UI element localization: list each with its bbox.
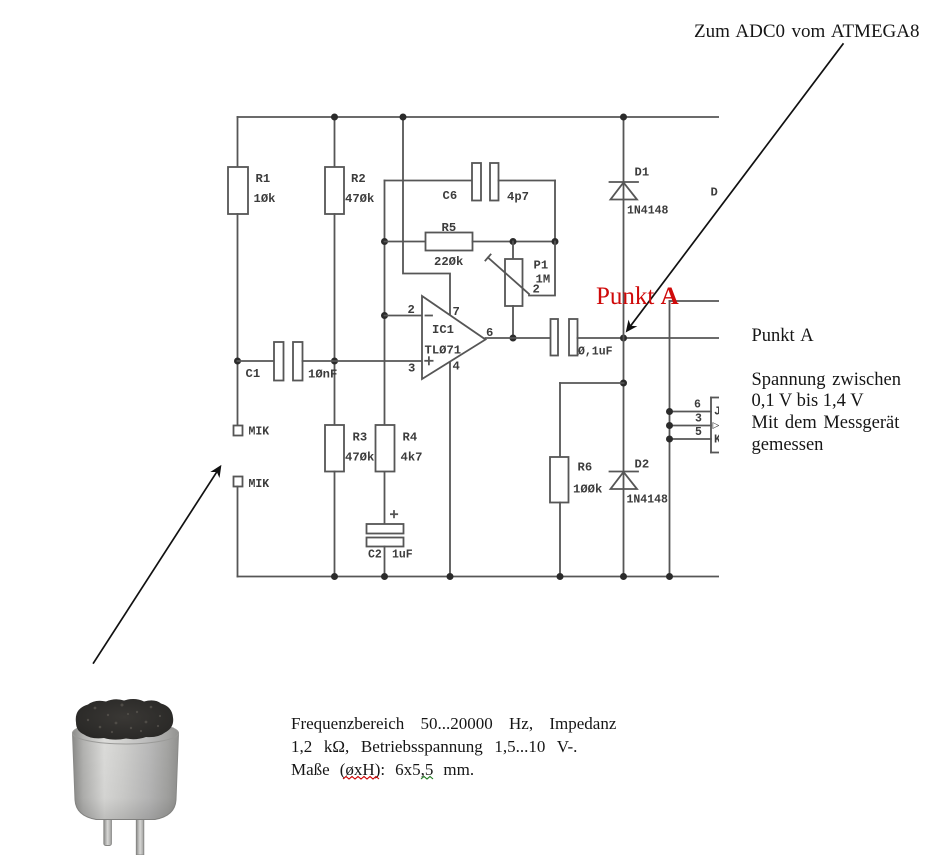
wire MIK2 to ground rail xyxy=(237,487,239,577)
mic body shade xyxy=(73,733,179,820)
capacitor C1 xyxy=(238,360,275,362)
resistor R6 xyxy=(550,457,569,503)
red squiggle xyxy=(343,777,379,780)
labels xyxy=(246,166,727,562)
connector stub 6 xyxy=(670,411,712,413)
svg-text:R1: R1 xyxy=(256,172,271,186)
wire feedback left leg xyxy=(384,181,386,426)
wire D1 to D2 xyxy=(623,182,625,472)
svg-text:1ØØk: 1ØØk xyxy=(573,483,602,497)
svg-text:P1: P1 xyxy=(534,259,549,273)
svg-text:1N4148: 1N4148 xyxy=(627,494,669,507)
text right block xyxy=(752,326,901,457)
connector bracket xyxy=(710,398,712,453)
wire C6 right leg xyxy=(554,181,556,242)
svg-text:R4: R4 xyxy=(403,431,418,445)
svg-text:Ø,1uF: Ø,1uF xyxy=(578,346,613,359)
wire bottom rail xyxy=(238,576,720,578)
wire output xyxy=(486,337,551,339)
svg-text:47Øk: 47Øk xyxy=(345,192,374,206)
svg-text:6: 6 xyxy=(694,399,701,412)
svg-text:2: 2 xyxy=(408,303,415,317)
potentiometer P1 xyxy=(512,242,514,260)
node R2 top xyxy=(331,114,338,121)
wire pin2 xyxy=(385,315,423,317)
node R6 tee xyxy=(620,380,627,387)
arrow to Punkt A xyxy=(629,44,843,328)
node fb C6 xyxy=(381,238,388,245)
node D2 gnd xyxy=(620,573,627,580)
microphone photo xyxy=(73,699,179,855)
resistor R3 xyxy=(325,425,344,472)
node R3 gnd xyxy=(331,573,338,580)
svg-text:C6: C6 xyxy=(443,189,458,203)
wire left rail lower xyxy=(237,214,239,426)
mic body xyxy=(73,733,179,820)
svg-text:3: 3 xyxy=(695,413,702,426)
mic leg left xyxy=(104,812,112,846)
node punkt A xyxy=(620,335,627,342)
resistor R2 xyxy=(325,167,344,214)
diode D2 xyxy=(610,471,639,473)
connector MIK1 xyxy=(234,426,243,436)
diode D1 xyxy=(610,181,639,183)
wire right branch xyxy=(669,301,671,577)
capacitor C6 xyxy=(385,180,473,182)
svg-text:1N4148: 1N4148 xyxy=(627,205,669,218)
svg-text:MIK: MIK xyxy=(249,478,270,491)
wire pin4 drop xyxy=(449,360,451,577)
node right gnd xyxy=(666,573,673,580)
wire left rail upper xyxy=(237,117,239,167)
node bias xyxy=(331,358,338,365)
svg-text:R3: R3 xyxy=(353,431,368,445)
svg-text:4k7: 4k7 xyxy=(401,451,423,465)
C2 plus sign xyxy=(391,513,397,515)
wire R2 top xyxy=(334,117,336,167)
connector stub 3 xyxy=(670,425,712,427)
svg-text:1ØnF: 1ØnF xyxy=(308,368,337,382)
svg-text:4p7: 4p7 xyxy=(507,190,529,204)
svg-text:R6: R6 xyxy=(578,461,593,475)
wire D1 branch xyxy=(623,117,625,182)
node C1 tee xyxy=(234,358,241,365)
wire top rail xyxy=(238,116,720,118)
text red Punkt A xyxy=(596,284,679,309)
svg-text:D1: D1 xyxy=(635,166,650,180)
svg-text:1uF: 1uF xyxy=(392,549,413,562)
node R6 gnd xyxy=(557,573,564,580)
connector stub 5 xyxy=(670,438,712,440)
svg-text:7: 7 xyxy=(453,305,460,319)
resistor R1 xyxy=(228,167,248,214)
capacitor C2 xyxy=(384,472,386,525)
svg-text:47Øk: 47Øk xyxy=(345,451,374,465)
node fb pin2 xyxy=(381,312,388,319)
mic rim shadow xyxy=(78,728,173,735)
wire punkt A line xyxy=(578,337,720,339)
svg-text:R2: R2 xyxy=(351,172,366,186)
white mask right of clip edge xyxy=(719,0,942,720)
svg-text:2: 2 xyxy=(533,283,540,297)
svg-text:TLØ71: TLØ71 xyxy=(425,344,462,358)
green squiggle xyxy=(421,777,433,780)
svg-text:MIK: MIK xyxy=(249,426,270,439)
node P1 out xyxy=(510,335,517,342)
svg-text:1Øk: 1Øk xyxy=(254,192,276,206)
wire pin7 drop xyxy=(403,117,450,315)
wire D2 to gnd xyxy=(623,472,625,577)
connector MIK2 xyxy=(234,477,243,487)
mic foam speckles xyxy=(87,704,161,734)
resistor R4 xyxy=(376,425,395,472)
svg-text:IC1: IC1 xyxy=(432,323,454,337)
text bottom block xyxy=(291,712,616,782)
op-amp IC1 xyxy=(422,296,486,379)
svg-text:C2: C2 xyxy=(368,549,382,562)
wire C1 to pin3 xyxy=(303,360,423,362)
mic top rim xyxy=(73,722,179,744)
svg-text:22Øk: 22Øk xyxy=(434,255,463,269)
node D1 rail xyxy=(620,114,627,121)
arrow to MIK xyxy=(94,470,219,663)
svg-text:C1: C1 xyxy=(246,367,261,381)
wire R2 bottom to R3 xyxy=(334,214,336,425)
svg-text:R5: R5 xyxy=(442,221,457,235)
svg-text:3: 3 xyxy=(408,362,415,376)
capacitor C7 xyxy=(551,319,559,356)
node P1 top xyxy=(510,238,517,245)
svg-text:D2: D2 xyxy=(635,458,650,472)
svg-text:5: 5 xyxy=(695,426,702,439)
svg-text:4: 4 xyxy=(453,360,460,374)
mic foam xyxy=(76,699,173,740)
node pin4 gnd xyxy=(447,573,454,580)
node pin7 rail xyxy=(400,114,407,121)
svg-text:6: 6 xyxy=(486,326,493,340)
svg-text:D: D xyxy=(711,186,718,200)
wire right stub line xyxy=(670,300,720,302)
node R5 right xyxy=(552,238,559,245)
text Zum ADC0 xyxy=(694,22,920,41)
wire R6 branch xyxy=(560,382,624,384)
resistor R5 xyxy=(385,241,426,243)
wire R3 bottom xyxy=(334,472,336,577)
mic leg right xyxy=(136,812,144,855)
